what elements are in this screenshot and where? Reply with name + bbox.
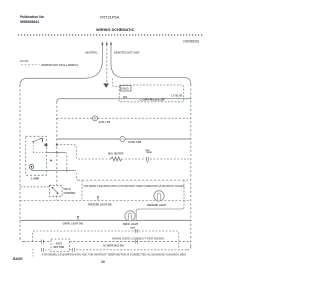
svg-text:COMPRESSOR: COMPRESSOR xyxy=(139,98,165,102)
svg-text:MUL HEATER: MUL HEATER xyxy=(108,153,124,156)
svg-text:FRT21P6A: FRT21P6A xyxy=(100,15,120,20)
svg-text:Publication No.: Publication No. xyxy=(20,15,45,19)
svg-text:242088301: 242088301 xyxy=(183,39,200,43)
svg-text:CONTROL: CONTROL xyxy=(64,192,77,195)
svg-text:COLD: COLD xyxy=(64,188,71,191)
svg-text:WHEN USED CONNECT PER MODEL: WHEN USED CONNECT PER MODEL xyxy=(112,237,166,240)
svg-text:WIRING SCHEMATIC: WIRING SCHEMATIC xyxy=(96,27,135,32)
svg-text:10: 10 xyxy=(101,260,105,264)
svg-text:DENOTES NOT ON ALL MODELS: DENOTES NOT ON ALL MODELS xyxy=(42,63,79,67)
svg-text:5995268644: 5995268644 xyxy=(20,20,39,24)
svg-text:EVAP. FAN: EVAP. FAN xyxy=(129,141,142,144)
svg-text:TERM: TERM xyxy=(146,152,152,154)
svg-text:AUTO: AUTO xyxy=(56,242,63,245)
svg-text:NOTE: NOTE xyxy=(20,59,28,63)
svg-text:NO: NO xyxy=(123,96,127,99)
svg-text:NEUTRAL: NEUTRAL xyxy=(86,51,99,55)
svg-text:FOR MODELS EQUIPPED WITH AUTO: FOR MODELS EQUIPPED WITH AUTO DEFROST TI… xyxy=(83,185,184,188)
svg-text:OVLD: OVLD xyxy=(121,87,128,91)
svg-text:WHT: WHT xyxy=(131,228,137,230)
svg-text:FREEZER LIGHT: FREEZER LIGHT xyxy=(147,204,167,207)
svg-text:CAB. LPS: CAB. LPS xyxy=(99,121,111,124)
svg-text:REFR. LIGHT: REFR. LIGHT xyxy=(123,223,139,226)
svg-text:FREEZER LIGHT SW.: FREEZER LIGHT SW. xyxy=(88,204,112,207)
svg-text:FOR MODELS EQUIPPED WITH ADC T: FOR MODELS EQUIPPED WITH ADC THE DEFROST… xyxy=(42,254,186,257)
svg-text:DEF TMR: DEF TMR xyxy=(54,246,65,249)
svg-text:LH DEFR MLD SW: LH DEFR MLD SW xyxy=(103,245,124,248)
svg-text:BASE: BASE xyxy=(13,257,23,261)
svg-text:DENOTES HOT SIDE: DENOTES HOT SIDE xyxy=(114,51,140,55)
svg-text:1 AMP: 1 AMP xyxy=(31,177,39,181)
svg-text:CNTRL LIGHT SW.: CNTRL LIGHT SW. xyxy=(63,222,84,225)
svg-text:LT. BLUE: LT. BLUE xyxy=(172,95,183,98)
